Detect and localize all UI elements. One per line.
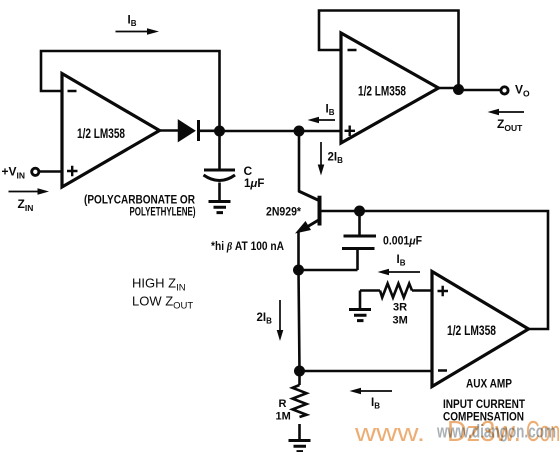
wire: node A to transistor collector node <box>220 130 342 133</box>
ground (below 3R) <box>349 310 371 321</box>
watermark www.diangon.com (grey) <box>436 422 556 442</box>
node B: emitter junction dot <box>293 265 304 276</box>
svg-text:IB: IB <box>371 397 380 411</box>
node A junction dot <box>214 126 225 137</box>
node C junction dot <box>294 366 305 377</box>
svg-text:2IB: 2IB <box>257 312 273 326</box>
svg-text:1/2 LM358: 1/2 LM358 <box>77 125 125 141</box>
svg-text:*hi β AT 100 nA: *hi β AT 100 nA <box>211 241 284 253</box>
wire: emitter down to node B <box>297 231 300 270</box>
watermark www.Dz3w.Com (orange serif) <box>354 416 559 448</box>
wire: diode to node A <box>200 130 220 133</box>
transistor note text <box>211 241 284 253</box>
wire: U1 feedback loop (output node up and around to inverting input) <box>41 51 220 131</box>
svg-text:IB: IB <box>397 254 406 268</box>
svg-text:www.: www. <box>354 420 425 447</box>
svg-text:INPUT CURRENT: INPUT CURRENT <box>443 399 525 411</box>
node: collector junction dot <box>294 126 305 137</box>
wire: node C to aux amp inverting input <box>300 370 433 373</box>
svg-text:0.001μF: 0.001μF <box>383 236 422 248</box>
op-amp U3 (1/2 LM358 aux amp) <box>432 272 529 387</box>
op-amp U2 (1/2 LM358, output follower) <box>341 33 439 143</box>
capacitor C2 0.001uF <box>342 211 422 270</box>
svg-text:(POLYCARBONATE OR: (POLYCARBONATE OR <box>84 193 195 207</box>
svg-text:R: R <box>279 398 287 410</box>
svg-text:ZIN: ZIN <box>18 197 34 213</box>
wire: node B down to node C <box>299 270 300 371</box>
ground (below capacitor C) <box>209 202 231 213</box>
dielectric note text <box>84 193 196 219</box>
ground (below R) <box>289 441 311 452</box>
op-amp U1 (1/2 LM358, input follower) <box>62 74 160 188</box>
resistor 3R 3M <box>360 284 432 327</box>
svg-text:2IB: 2IB <box>328 152 344 166</box>
svg-text:VO: VO <box>515 83 530 99</box>
svg-text:2N929*: 2N929* <box>266 207 301 219</box>
current label 2IB (left vertical wire) with arrow <box>257 300 284 341</box>
impedance label ZOUT with arrow <box>488 109 525 133</box>
svg-text:AUX AMP: AUX AMP <box>466 379 512 391</box>
current label IB (aux amp + path) with arrow <box>378 254 421 275</box>
node: base junction dot <box>354 206 365 217</box>
wire: node to transistor collector <box>298 131 301 192</box>
resistor R 1M <box>276 371 307 439</box>
input terminal +VIN <box>2 165 39 181</box>
svg-text:IB: IB <box>326 103 335 117</box>
wire: U1 output to diode <box>160 129 179 132</box>
current label IB (bottom) with arrow <box>350 388 393 411</box>
svg-text:IB: IB <box>128 15 137 29</box>
current label IB (into U2 + input) with arrow <box>308 103 336 123</box>
current label 2IB (collector current) with arrow <box>318 142 343 176</box>
aux amp caption <box>443 379 525 424</box>
note HIGH ZIN / LOW ZOUT <box>132 276 193 312</box>
current label IB (top left) with arrow <box>116 15 160 35</box>
wire: node B to capacitor C2 bottom <box>299 269 358 272</box>
svg-text:+VIN: +VIN <box>2 165 26 181</box>
diode D1 <box>179 120 199 141</box>
wire: U2 feedback loop (output node up and around to inverting input) <box>319 11 459 91</box>
svg-text:1M: 1M <box>276 411 291 423</box>
svg-text:1/2 LM358: 1/2 LM358 <box>447 322 496 338</box>
wire: base node to aux amp output <box>360 211 549 329</box>
svg-text:3R: 3R <box>393 302 407 314</box>
svg-text:HIGH ZIN: HIGH ZIN <box>132 276 186 294</box>
node: U2 output junction dot <box>453 84 464 95</box>
svg-text:C: C <box>244 164 253 178</box>
svg-text:www.diangon.com: www.diangon.com <box>436 422 556 442</box>
svg-text:1μF: 1μF <box>244 178 264 190</box>
capacitor C 1uF (polycarbonate) <box>204 136 265 200</box>
svg-text:ZOUT: ZOUT <box>497 117 523 133</box>
output terminal VO <box>501 83 530 99</box>
svg-text:3M: 3M <box>393 315 408 327</box>
svg-text:POLYETHYLENE): POLYETHYLENE) <box>130 207 196 219</box>
wire: U2 output <box>439 88 501 90</box>
transistor Q1 2N929 <box>266 191 360 234</box>
svg-text:LOW ZOUT: LOW ZOUT <box>132 294 193 312</box>
svg-text:1/2 LM358: 1/2 LM358 <box>358 83 406 99</box>
impedance label ZIN with arrow <box>9 188 50 213</box>
wire: +VIN to U1 non-inverting input <box>39 170 62 173</box>
